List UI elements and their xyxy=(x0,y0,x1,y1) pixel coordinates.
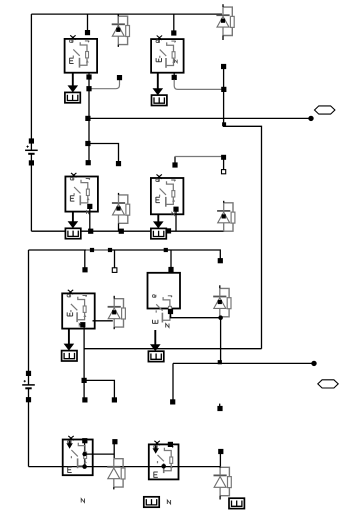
wire: Q4 emitter to bottom rail xyxy=(175,211,177,231)
pulse block P4 (gate pulse block) xyxy=(151,228,166,238)
port: Q8 collector xyxy=(168,442,172,446)
port: dangling D8 feed xyxy=(218,406,222,410)
wire: Q2 emitter stub xyxy=(173,73,175,75)
wire: top rail to Q1 collector xyxy=(87,14,89,30)
wire: Q4 collector to D3 cathode xyxy=(175,156,224,158)
junction: Q7 tap xyxy=(82,452,86,456)
wire: D0 anode down / bridge link right rail xyxy=(224,69,262,349)
port: Q1 collector node xyxy=(85,30,89,34)
diode D3 (with RC snubber) xyxy=(217,203,235,232)
junction: rail mark C xyxy=(164,248,167,251)
wire: bridge1 output bus xyxy=(88,117,311,119)
wire: Q5 emitter to D4 anode xyxy=(93,320,113,322)
DC voltage source V2 xyxy=(22,371,35,402)
pulse block P5 (gate pulse block) xyxy=(62,351,77,361)
gate arrow into P2 xyxy=(153,73,164,96)
wire: Q7 internal column xyxy=(84,443,86,467)
wire: bridge2 output bus xyxy=(173,362,314,364)
wire: bridge1 bottom rail (DC-) xyxy=(31,230,223,232)
wire: bridge1 left rail lower xyxy=(30,163,32,231)
wire: bridge2 top rail xyxy=(29,250,221,259)
port: Q4 collector wire end xyxy=(173,163,177,167)
port: Q5-E wire end xyxy=(83,398,87,402)
junction: Q4-E / bottom rail xyxy=(166,229,170,233)
port: D7 wire end xyxy=(112,398,116,402)
pulse block P2 (gate pulse block) xyxy=(152,95,167,105)
wire: top rail to Q6 collector xyxy=(170,250,172,267)
port: Q6 emitter xyxy=(168,309,172,313)
port: D1 anode xyxy=(117,75,121,79)
junction: Q1-E / D2 feed xyxy=(86,141,90,145)
port: D5 cathode wire end xyxy=(218,259,222,263)
wire: bridge1 left rail upper xyxy=(30,14,32,141)
port: Q8 collector wire end xyxy=(171,400,175,404)
wire: Q4 collector stub xyxy=(174,157,176,163)
junction: rail mark B xyxy=(108,248,111,251)
wire: Q7 to D7 xyxy=(85,453,115,455)
junction: Q1-E column / D1 anode wire xyxy=(87,87,91,91)
port: corner mark xyxy=(222,155,226,159)
wire: Q1 emitter column xyxy=(88,79,90,160)
wire: Q5 emitter column xyxy=(83,327,85,398)
wire: bridge2 left rail lower xyxy=(28,402,30,467)
junction: Q5-E / D7 feed xyxy=(82,378,86,382)
gate arrow into P4 xyxy=(153,214,164,228)
wire: D3 cathode drop xyxy=(223,157,225,170)
port: Q2 emitter xyxy=(172,75,176,79)
wire: stub xyxy=(219,404,221,407)
port: Q5 collector wire end xyxy=(83,268,87,272)
diode D0 (with RC snubber) xyxy=(216,7,234,35)
gate arrow into P5 xyxy=(64,329,75,351)
transistor Q3 (IGBT/Diode block) xyxy=(65,173,98,214)
port: Q6 collector wire end xyxy=(169,267,173,271)
junction: Q8-E / bottom rail xyxy=(161,464,166,469)
port: D7 cathode xyxy=(113,440,117,444)
wire: Q3 emitter to bottom rail xyxy=(89,209,91,232)
wire: bridge2 bottom rail xyxy=(29,466,221,468)
pulse block P1 (gate pulse block) xyxy=(65,92,80,102)
output port Out1 xyxy=(315,106,335,114)
DC voltage source V1 xyxy=(25,139,38,165)
port: wire end above Q3 xyxy=(86,161,90,165)
wire: Q2 emitter to D0 anode xyxy=(174,80,223,90)
junction: Q7-E / bottom rail xyxy=(82,464,87,469)
port: Q2 collector node xyxy=(172,31,176,35)
transistor Q4 (IGBT/Diode block) xyxy=(151,174,184,215)
junction: rail mark A xyxy=(90,248,93,251)
wire: D2 feed xyxy=(88,144,119,162)
wire: bridge1 top rail (DC+) xyxy=(31,13,222,15)
port: D0 anode wire end xyxy=(221,64,225,68)
junction: Q1-E / output bus xyxy=(86,116,90,120)
wire: to D7 link xyxy=(84,380,114,398)
wire: top rail to D4 cathode xyxy=(114,250,116,268)
junction: Q3-E / bottom rail xyxy=(89,229,93,233)
label 2 xyxy=(81,499,84,503)
transistor Q8 (IGBT/Diode block) xyxy=(149,441,179,480)
wire: D7 cathode stub xyxy=(113,444,115,459)
pulse block P8 (gate pulse block) xyxy=(229,498,244,508)
label 2 xyxy=(167,500,170,504)
diode D5 (with RC snubber) xyxy=(213,288,231,316)
wire: Q6 emitter to output node xyxy=(171,314,221,318)
transistor Q2 (IGBT/Diode block) xyxy=(151,36,184,73)
wire: bridge2 left rail upper xyxy=(28,250,30,371)
output port Out2 xyxy=(318,380,338,388)
wire: D0 top stub xyxy=(222,4,224,7)
wire: D1 top tie xyxy=(117,14,119,16)
wire: output bus down to Q8 collector xyxy=(172,363,174,400)
diode D8 (with RC snubber) xyxy=(214,467,232,499)
transistor Q5 (IGBT/Diode block) xyxy=(62,290,94,329)
junction: D0 column corner mark xyxy=(223,123,226,126)
wire: D3 top stub xyxy=(223,201,225,203)
diode D4 (with RC snubber) xyxy=(108,299,126,330)
port: D2 cathode wire end xyxy=(116,161,120,165)
port: D8 cathode xyxy=(219,449,223,453)
wire: output node down to bus xyxy=(220,318,222,364)
diode D1 (with RC snubber) xyxy=(112,16,130,47)
junction: D2 / bottom rail xyxy=(119,229,123,233)
port: Q7 collector xyxy=(83,439,87,443)
diode D2 (with RC snubber) xyxy=(112,195,130,231)
gate arrow into P1 xyxy=(68,73,79,93)
wire: D0 bottom stub xyxy=(222,36,224,41)
wire: D4 top stub xyxy=(113,296,115,299)
junction: D5 / output node xyxy=(218,315,223,320)
node: output 2 xyxy=(311,361,316,366)
wire: Q1 emitter to D1 anode xyxy=(89,80,120,89)
wire: top rail to Q2 collector xyxy=(173,14,175,31)
gate arrow into P6 xyxy=(150,330,161,351)
wire: top rail gray overlay xyxy=(86,249,110,251)
wire: D2 top stub xyxy=(118,193,120,195)
transistor Q1 (IGBT/Diode block) xyxy=(65,35,98,79)
port: D4 cathode (open) xyxy=(112,268,117,273)
pulse block P3 (gate pulse block) xyxy=(65,228,80,238)
wire: bridge2 mid rail (links to bridge1 output) xyxy=(84,348,261,350)
pulse block P6 (gate pulse block) xyxy=(148,351,163,361)
node: output 1 xyxy=(308,116,313,121)
transistor Q6 (IGBT/Diode block) xyxy=(148,273,181,324)
gate arrow into P3 xyxy=(68,212,79,229)
diode D7 (with RC snubber) xyxy=(107,459,125,490)
wire: top rail into D1 xyxy=(117,14,119,31)
port: D3 cathode (open) xyxy=(222,170,226,174)
wire: top rail to Q5 collector xyxy=(84,250,86,268)
label 2 xyxy=(166,324,169,328)
pulse block P7 (gate pulse block) xyxy=(144,497,159,507)
junction: bus mark xyxy=(218,361,221,364)
junction: Q2-E / D0 anode column xyxy=(222,87,226,91)
wire: D5 top stub xyxy=(219,285,221,288)
transistor Q7 (IGBT/Diode block) xyxy=(63,436,93,475)
wire: D8 cathode stub xyxy=(219,454,221,468)
